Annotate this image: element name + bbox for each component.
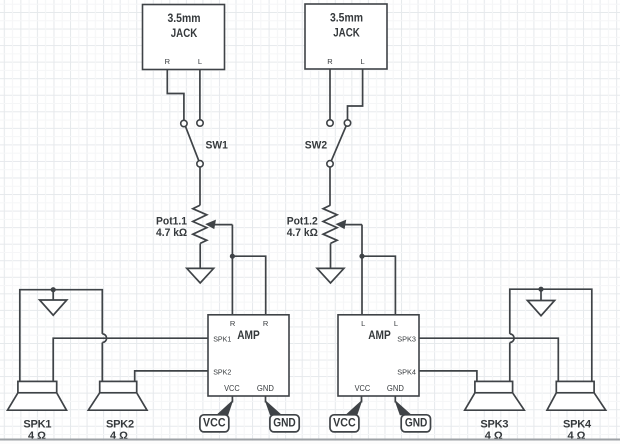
net tag GND (AMP1) [266, 401, 300, 432]
svg-text:GND: GND [387, 383, 404, 393]
svg-text:R: R [165, 57, 171, 66]
junction left rail [51, 287, 56, 292]
svg-text:JACK: JACK [171, 28, 198, 40]
wire hop left (vertical over horizontal) [102, 334, 106, 382]
jack J1 box [143, 5, 225, 70]
jack J2 box [305, 4, 387, 69]
svg-text:VCC: VCC [333, 418, 356, 430]
svg-text:GND: GND [273, 418, 296, 430]
svg-text:Pot1.1: Pot1.1 [156, 215, 187, 227]
svg-text:4.7 kΩ: 4.7 kΩ [287, 227, 318, 239]
wire AMP2 SPK4 pin to SPK3 [419, 371, 477, 382]
wire AMP2 SPK3 pin to SPK4 [419, 338, 558, 381]
wire J2.R to SW2 left contact [329, 69, 331, 120]
wire J2.L to SW2 right contact [348, 69, 363, 120]
svg-text:R: R [327, 57, 333, 66]
svg-text:SPK2: SPK2 [106, 419, 134, 431]
wire Pot1.2 wiper to AMP2 L pins, junction [361, 225, 363, 315]
speaker SPK1 [8, 381, 67, 442]
wire hop right (vertical over horizontal) [510, 334, 514, 382]
wire AMP2 GND pin [394, 396, 396, 403]
canvas bottom border [0, 441, 620, 444]
svg-text:SW1: SW1 [206, 140, 228, 152]
speaker SPK4 [547, 381, 606, 442]
wire SW2 to Pot1.2 [329, 167, 331, 205]
ground symbol left [40, 290, 67, 316]
net tag VCC (AMP1) [200, 401, 233, 432]
svg-text:SPK4: SPK4 [563, 419, 592, 431]
svg-text:L: L [361, 319, 365, 328]
svg-text:L: L [361, 57, 365, 66]
wire AMP1 SPK1 pin to SPK1 [53, 338, 208, 381]
net tag VCC (AMP2) [330, 401, 362, 432]
svg-text:3.5mm: 3.5mm [168, 13, 201, 25]
speaker SPK3 [465, 381, 525, 442]
svg-text:SPK3: SPK3 [397, 335, 416, 344]
switch SW2 [305, 120, 351, 167]
ground below Pot1.1 [187, 243, 214, 283]
svg-text:SW2: SW2 [305, 140, 327, 152]
op-amp U1 AMP box [208, 315, 289, 396]
potentiometer Pot1.1 [156, 205, 232, 243]
switch SW1 [181, 120, 228, 167]
wire AMP1 SPK2 pin to SPK2 [135, 371, 208, 382]
svg-text:L: L [394, 319, 398, 328]
svg-text:SPK1: SPK1 [23, 419, 51, 431]
wire AMP1 GND pin [265, 396, 267, 403]
svg-text:Pot1.2: Pot1.2 [287, 215, 318, 227]
wire Pot1.1 wiper to AMP1 R pins, junction [231, 225, 233, 315]
svg-text:L: L [198, 57, 202, 66]
svg-text:SPK4: SPK4 [397, 368, 416, 377]
wire AMP1 VCC pin [231, 396, 233, 403]
junction right rail [538, 287, 543, 292]
op-amp U2 AMP box [338, 315, 419, 396]
wire J1.L to SW1 right contact [199, 70, 201, 120]
svg-text:R: R [230, 319, 236, 328]
svg-text:JACK: JACK [333, 28, 360, 40]
svg-text:4.7 kΩ: 4.7 kΩ [156, 227, 187, 239]
svg-text:R: R [263, 319, 269, 328]
wire SW1 to Pot1.1 [199, 167, 201, 205]
ground below Pot1.2 [317, 243, 344, 283]
wire AMP2 VCC pin [361, 396, 363, 403]
right ground rail wire [510, 289, 592, 381]
svg-text:AMP: AMP [368, 330, 391, 342]
svg-text:VCC: VCC [224, 383, 240, 393]
wire J1.R to SW1 left contact [167, 70, 184, 121]
potentiometer Pot1.2 [287, 205, 362, 243]
svg-text:GND: GND [405, 418, 428, 430]
svg-text:VCC: VCC [203, 418, 226, 430]
svg-text:SPK3: SPK3 [480, 419, 508, 431]
svg-text:GND: GND [257, 383, 274, 393]
svg-text:3.5mm: 3.5mm [330, 12, 363, 24]
svg-text:SPK2: SPK2 [213, 368, 231, 377]
svg-text:VCC: VCC [355, 383, 371, 393]
speaker SPK2 [88, 381, 147, 442]
ground symbol right [527, 289, 554, 316]
svg-text:SPK1: SPK1 [213, 335, 231, 344]
left ground rail wire [20, 290, 103, 382]
net tag GND (AMP2) [395, 401, 430, 432]
svg-text:AMP: AMP [237, 330, 260, 342]
